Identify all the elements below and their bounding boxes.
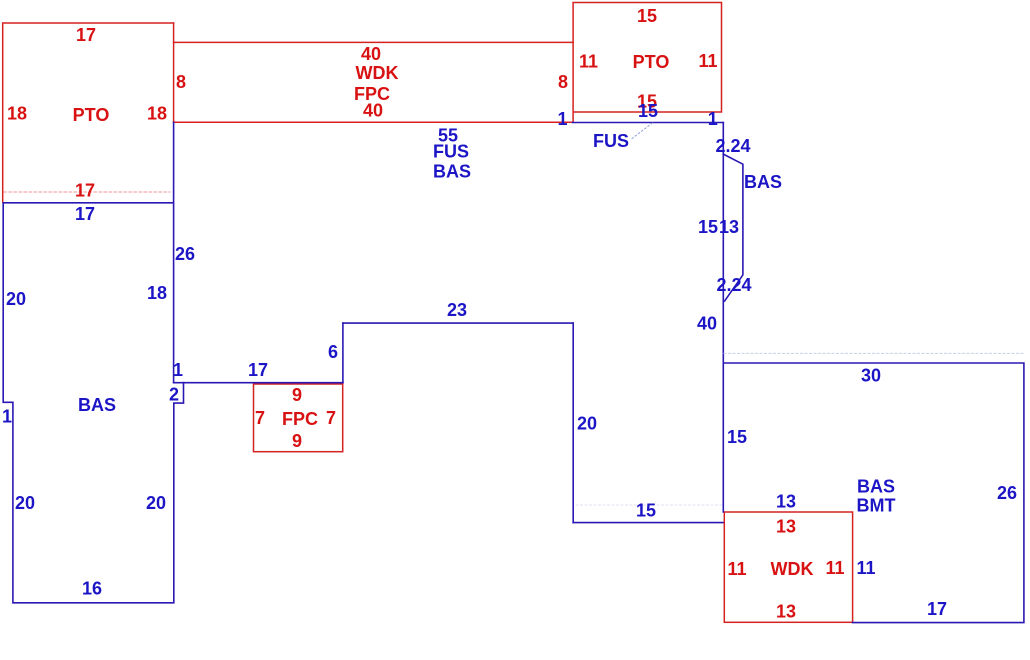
svg-text:26: 26	[997, 483, 1017, 503]
faint hidden wall above 15 line (dotted)	[576, 504, 722, 506]
svg-text:13: 13	[719, 217, 739, 237]
PTO1 hidden bottom wall (faint pink dashed)	[4, 191, 170, 193]
svg-text:WDK: WDK	[356, 63, 399, 83]
svg-text:18: 18	[147, 104, 167, 124]
wall 20 (blue vertical)	[572, 323, 574, 522]
WDK deck rectangle (bottom-right red)	[724, 512, 852, 622]
svg-text:PTO: PTO	[73, 105, 110, 125]
svg-text:15: 15	[698, 217, 718, 237]
svg-text:15: 15	[727, 427, 747, 447]
wall 6 (blue vertical)	[342, 323, 344, 383]
svg-text:20: 20	[6, 289, 26, 309]
FUS/BAS upper wall 55 (blue)	[573, 122, 724, 124]
svg-text:17: 17	[248, 360, 268, 380]
svg-text:15: 15	[637, 6, 657, 26]
svg-text:26: 26	[175, 244, 195, 264]
svg-text:17: 17	[927, 599, 947, 619]
svg-text:7: 7	[326, 408, 336, 428]
svg-text:2.24: 2.24	[715, 136, 750, 156]
svg-text:9: 9	[292, 385, 302, 405]
svg-text:20: 20	[15, 493, 35, 513]
svg-text:1: 1	[708, 109, 718, 129]
svg-text:BMT: BMT	[857, 496, 896, 516]
svg-text:FPC: FPC	[282, 409, 318, 429]
svg-text:23: 23	[447, 300, 467, 320]
svg-text:13: 13	[776, 517, 796, 537]
PTO area 2 outline (top-right red)	[573, 3, 721, 123]
svg-text:8: 8	[176, 72, 186, 92]
svg-text:11: 11	[698, 51, 717, 71]
svg-text:9: 9	[292, 431, 302, 451]
svg-text:BAS: BAS	[433, 162, 471, 182]
FUS leader dotted line	[632, 123, 653, 139]
svg-text:30: 30	[861, 366, 881, 386]
wall 23 (blue horizontal)	[343, 322, 573, 324]
svg-text:7: 7	[255, 408, 265, 428]
BAS first-floor outline (left blue polygon)	[3, 122, 183, 603]
svg-text:FUS: FUS	[593, 131, 629, 151]
svg-text:6: 6	[328, 342, 338, 362]
svg-text:17: 17	[76, 25, 96, 45]
svg-text:16: 16	[82, 579, 102, 599]
WDK/FPC deck band outline (red)	[174, 23, 573, 122]
svg-text:13: 13	[776, 492, 796, 512]
svg-text:2: 2	[169, 385, 179, 405]
svg-text:17: 17	[75, 181, 95, 201]
svg-text:8: 8	[558, 72, 568, 92]
svg-text:BAS: BAS	[78, 395, 116, 415]
BAS/BMT basement outline (bottom-right blue)	[723, 363, 1024, 623]
svg-text:17: 17	[75, 204, 95, 224]
faint hidden wall above BMT (dotted)	[724, 352, 1024, 354]
svg-text:18: 18	[147, 283, 167, 303]
svg-text:BAS: BAS	[744, 172, 782, 192]
interior wall 17 (blue, above FPC)	[174, 382, 343, 384]
svg-text:40: 40	[697, 314, 717, 334]
svg-text:1: 1	[173, 360, 183, 380]
bay window bump (blue)	[723, 154, 743, 301]
svg-text:1: 1	[2, 407, 12, 427]
svg-text:40: 40	[361, 44, 381, 64]
svg-text:FUS: FUS	[433, 142, 469, 162]
svg-text:15: 15	[638, 101, 658, 121]
svg-text:13: 13	[776, 602, 796, 622]
right wall with bay (blue)	[722, 123, 724, 513]
FPC patio rectangle (red, middle)	[254, 384, 343, 452]
svg-text:40: 40	[363, 101, 383, 121]
svg-text:20: 20	[146, 493, 166, 513]
wall 15 (blue horizontal)	[573, 522, 723, 524]
svg-text:15: 15	[636, 501, 656, 521]
svg-text:18: 18	[7, 104, 27, 124]
PTO area 1 outline (top-left red)	[3, 23, 174, 202]
svg-text:BAS: BAS	[857, 477, 895, 497]
svg-text:20: 20	[577, 414, 597, 434]
svg-text:11: 11	[727, 559, 746, 579]
svg-text:11: 11	[856, 558, 875, 578]
svg-text:PTO: PTO	[633, 52, 670, 72]
svg-text:WDK: WDK	[771, 559, 814, 579]
svg-text:11: 11	[579, 52, 598, 72]
svg-text:11: 11	[825, 558, 844, 578]
svg-text:2.24: 2.24	[716, 275, 751, 295]
svg-text:1: 1	[557, 109, 567, 129]
